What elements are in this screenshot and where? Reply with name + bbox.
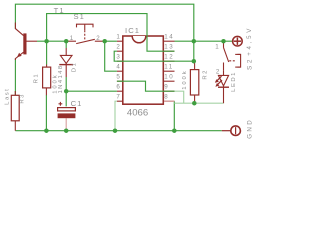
- svg-text:Last: Last: [5, 88, 11, 105]
- wire S1 to IC pin 4: [105, 41, 117, 71]
- junction node supply rail/pin14: [192, 39, 197, 44]
- svg-text:100k: 100k: [53, 73, 59, 93]
- wire down to R1: [46, 41, 48, 64]
- ground symbol GND: [222, 126, 241, 136]
- svg-text:5: 5: [116, 73, 121, 80]
- svg-text:11: 11: [164, 64, 173, 71]
- junction node S1/pin1/pin4: [102, 39, 107, 44]
- wire pin 9 jog down (pale): [175, 91, 184, 103]
- svg-text:4066: 4066: [127, 108, 148, 119]
- junction node R2/output: [192, 101, 197, 106]
- svg-text:3: 3: [116, 53, 121, 60]
- svg-text:C1: C1: [71, 99, 83, 108]
- svg-text:1: 1: [70, 35, 75, 42]
- svg-text:R3: R3: [19, 93, 25, 104]
- wire D1 cathode down to C1: [65, 77, 67, 106]
- wire output horizontal to LED (pale): [174, 102, 223, 104]
- IC1 right pin stubs 8-14: [163, 41, 174, 101]
- wire pins 2-3 tie and row to pin 12 junction: [114, 51, 194, 61]
- wire pin 5 to pin 9: [117, 81, 175, 91]
- wire down to D1: [65, 41, 67, 48]
- junction node D1/S1: [64, 39, 69, 44]
- svg-text:IC1: IC1: [125, 26, 140, 35]
- wire net VCC top rail: [15, 4, 193, 61]
- svg-text:8: 8: [164, 94, 169, 101]
- svg-text:R2: R2: [203, 69, 209, 80]
- svg-text:1: 1: [116, 33, 121, 40]
- svg-text:R1: R1: [34, 73, 40, 84]
- switch S2: [224, 41, 241, 70]
- wire R1 bottom to ground rail: [45, 95, 47, 131]
- svg-text:13: 13: [164, 44, 174, 51]
- svg-text:100k: 100k: [182, 69, 188, 89]
- transistor T1: [15, 23, 37, 61]
- junction node supply/S2: [221, 39, 226, 44]
- IC1 body 4066: [123, 36, 164, 104]
- svg-text:D1: D1: [71, 62, 77, 73]
- IC1 right pin numbers: [164, 34, 174, 101]
- junction node base/R1: [44, 39, 49, 44]
- svg-text:10: 10: [164, 74, 174, 81]
- wire pin 6 to D1/C1 node: [66, 90, 117, 92]
- junction node R1/rail: [44, 128, 49, 133]
- junction node pin12/R2: [192, 59, 197, 64]
- capacitor C1: [58, 102, 76, 118]
- junction node C1/rail: [64, 128, 69, 133]
- svg-text:9: 9: [164, 84, 169, 91]
- switch S1: [66, 24, 105, 43]
- svg-text:+4,5V: +4,5V: [246, 26, 253, 56]
- supply symbol +4,5V: [233, 36, 243, 46]
- svg-text:2: 2: [216, 69, 221, 76]
- svg-text:LED1: LED1: [231, 71, 237, 92]
- svg-text:4: 4: [116, 63, 121, 70]
- wire emitter down to R3: [14, 59, 16, 96]
- wire C1 minus lead (pink): [65, 118, 67, 131]
- svg-text:1: 1: [215, 44, 220, 51]
- IC1 left pin stubs 1-7: [117, 41, 123, 101]
- svg-text:2: 2: [116, 43, 121, 50]
- wire pin 7 to rail (pale): [115, 101, 117, 131]
- LED LED1: [216, 70, 229, 103]
- svg-text:12: 12: [164, 54, 174, 61]
- wire net base to pin13 inner rail: [47, 14, 175, 52]
- svg-text:14: 14: [164, 34, 174, 41]
- IC1 left pin numbers: [116, 33, 121, 100]
- wire base row to IC pin 1: [37, 40, 67, 42]
- wire pin 8 (pink): [164, 100, 174, 102]
- wire output node down to rail: [173, 101, 175, 131]
- junction node output/rail: [172, 128, 177, 133]
- resistor R2: [190, 61, 198, 103]
- svg-text:S2: S2: [246, 57, 253, 70]
- resistor R1: [43, 65, 51, 96]
- svg-text:2: 2: [96, 35, 101, 42]
- svg-text:T1: T1: [54, 6, 65, 15]
- svg-text:S1: S1: [74, 12, 86, 21]
- svg-text:GND: GND: [247, 118, 254, 139]
- svg-text:6: 6: [116, 83, 121, 90]
- wire pin 14 to supply: [175, 40, 233, 42]
- diode D1 1N4148: [59, 48, 73, 77]
- IC IC1 4066: [116, 26, 174, 119]
- LED1 arrow heads: [215, 79, 220, 87]
- wire bottom ground rail: [15, 130, 221, 132]
- junction node pin7/rail: [113, 128, 118, 133]
- svg-text:7: 7: [116, 93, 121, 100]
- svg-text:1N4148: 1N4148: [58, 64, 64, 93]
- junction node D1/C1/pin6: [64, 89, 69, 94]
- resistor R3: [11, 91, 19, 131]
